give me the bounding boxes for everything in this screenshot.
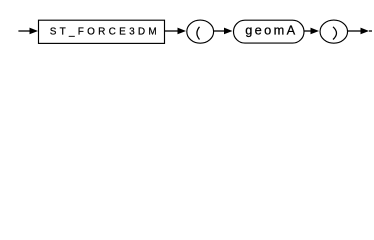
wire ( to geomA: [214, 30, 226, 32]
wire box to (: [165, 30, 178, 32]
arrowhead exit: [361, 28, 370, 35]
arrowhead into ): [311, 28, 320, 35]
wire entry line: [18, 30, 31, 32]
arrowhead into ST_FORCE3DM box: [30, 28, 39, 35]
arrowhead into (: [178, 28, 187, 35]
wire exit tail: [369, 30, 372, 32]
wire geomA to ): [304, 30, 311, 32]
svg-text:ST_FORCE3DM: ST_FORCE3DM: [50, 26, 157, 37]
box ST_FORCE3DM: [39, 20, 165, 43]
terminal geomA oval: [234, 20, 305, 43]
svg-text:geomA: geomA: [245, 23, 295, 38]
label ) drawn as arc: [333, 27, 337, 40]
arrowhead into geomA: [224, 28, 233, 35]
terminal ( oval: [187, 20, 214, 43]
terminal ) oval: [320, 20, 348, 43]
label ( drawn as arc: [197, 27, 200, 40]
wire exit line: [348, 30, 362, 32]
